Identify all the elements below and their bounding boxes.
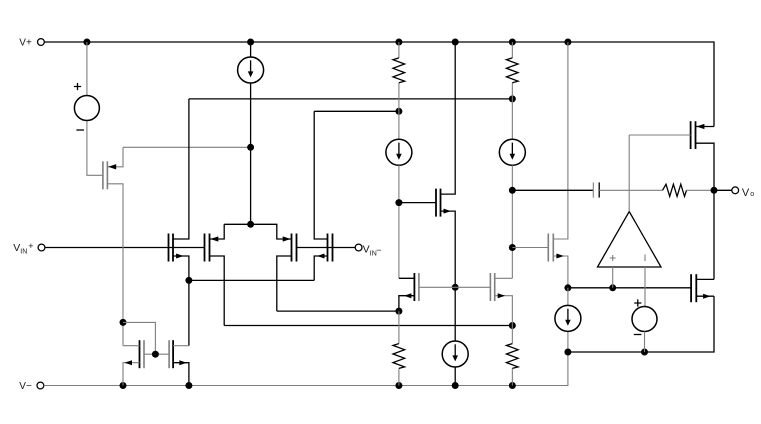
wire Q4 source to x399 mirror xyxy=(277,310,399,312)
wire Q3 source to x512 mirror xyxy=(224,325,512,327)
node V+ terminal xyxy=(19,37,44,48)
wire mirror gate tie xyxy=(123,322,169,354)
junction drain line at x399 xyxy=(395,108,402,115)
svg-text:V: V xyxy=(742,187,750,199)
transistor Q8 level shift NMOS xyxy=(399,42,455,287)
junction V- at x189 xyxy=(185,382,192,389)
junction x512 y190 xyxy=(509,187,516,194)
resistor R3 bottom x399 xyxy=(393,311,405,385)
node V- terminal xyxy=(19,381,44,392)
junction Q1 source / mirror tie xyxy=(120,319,127,326)
op-amp buffer A1 xyxy=(598,135,662,306)
junction V+ at x455 xyxy=(452,39,459,46)
resistor R5 compensation xyxy=(663,184,715,196)
current source I5 xyxy=(555,288,581,352)
resistor R1 top x399 xyxy=(393,42,405,139)
wire Q1 drain to tail node xyxy=(123,146,251,148)
wire Q2-Q5 source join xyxy=(189,279,314,281)
transistor Q5 input pair T4 xyxy=(314,111,332,280)
junction x568 y352 xyxy=(564,349,571,356)
svg-text:V: V xyxy=(363,243,370,255)
transistor Q13 output NMOS xyxy=(691,274,714,302)
wire Q5 drain cross-couple to x399 xyxy=(314,110,399,112)
current source I1 tail xyxy=(238,42,264,224)
transistor Q7 lower-left mirror ML2 xyxy=(169,340,189,385)
junction x512 y247 xyxy=(509,244,516,251)
junction V- at x512 xyxy=(509,382,516,389)
transistor Q3 input pair T2 xyxy=(205,224,225,325)
junction V- at x123 xyxy=(120,382,127,389)
wire V- rail xyxy=(44,352,568,386)
junction x568 y288 xyxy=(564,284,571,291)
voltage source VS1 top-left xyxy=(74,42,103,175)
junction mirror gate line x455 xyxy=(452,284,459,291)
junction tail line x250 xyxy=(247,144,254,151)
wire VIN+ gate line xyxy=(45,247,205,249)
junction tail bridge xyxy=(247,221,254,228)
junction x399 y311 xyxy=(395,308,402,315)
voltage source VS2 xyxy=(632,299,657,352)
wire VIN- gate line xyxy=(297,247,356,249)
wire Q2 drain cross-couple to x512 xyxy=(189,98,512,100)
current source I4 xyxy=(442,287,468,385)
junction buffer input xyxy=(609,284,616,291)
junction V- at x399 xyxy=(395,382,402,389)
junction V- at x455 xyxy=(452,382,459,389)
transistor Q1 input cascode PMOS left xyxy=(103,147,123,345)
junction V+ at x568 xyxy=(564,39,571,46)
transistor Q6 lower-left mirror ML1 xyxy=(123,340,155,385)
resistor R4 bottom x512 xyxy=(506,326,518,386)
junction V+ at x399 xyxy=(395,39,402,46)
transistor Q9 second stage M-left xyxy=(399,273,491,311)
wire tail bridge xyxy=(224,224,291,239)
transistor Q11 cascode QC xyxy=(512,42,568,288)
junction VS2 bottom xyxy=(641,349,648,356)
capacitor C1 compensation xyxy=(512,182,662,197)
svg-text:V: V xyxy=(13,242,20,254)
resistor R2 top x512 xyxy=(506,42,518,139)
svg-text:V+: V+ xyxy=(19,37,32,48)
transistor Q12 output PMOS xyxy=(629,121,714,279)
svg-text:IN: IN xyxy=(20,249,27,256)
junction mirror gate xyxy=(152,351,159,358)
junction V+ at x87 xyxy=(83,39,90,46)
junction drain line at x512 xyxy=(509,95,516,102)
transistor Q4 input pair T3 xyxy=(277,234,297,312)
svg-text:−: − xyxy=(376,245,381,255)
wire source rail to output NMOS source xyxy=(568,296,714,352)
wire V+ rail xyxy=(44,42,714,127)
node VO output terminal xyxy=(711,187,755,199)
svg-text:+: + xyxy=(28,241,33,251)
junction V+ at x512 xyxy=(509,39,516,46)
junction x399 gate tap xyxy=(395,199,402,206)
wire output gate line xyxy=(568,287,691,289)
current source I3 xyxy=(499,139,525,278)
junction x512 y325 xyxy=(509,322,516,329)
svg-text:o: o xyxy=(750,191,754,198)
node VIN+ terminal xyxy=(13,241,45,255)
transistor Q10 second stage M-right xyxy=(490,273,512,326)
junction V+ at x250 xyxy=(247,39,254,46)
current source I2 xyxy=(386,139,412,278)
transistor Q2 input pair T1 xyxy=(169,99,189,346)
node VIN- terminal xyxy=(355,243,381,257)
junction x189 y280 xyxy=(185,277,192,284)
svg-text:V−: V− xyxy=(19,381,32,392)
